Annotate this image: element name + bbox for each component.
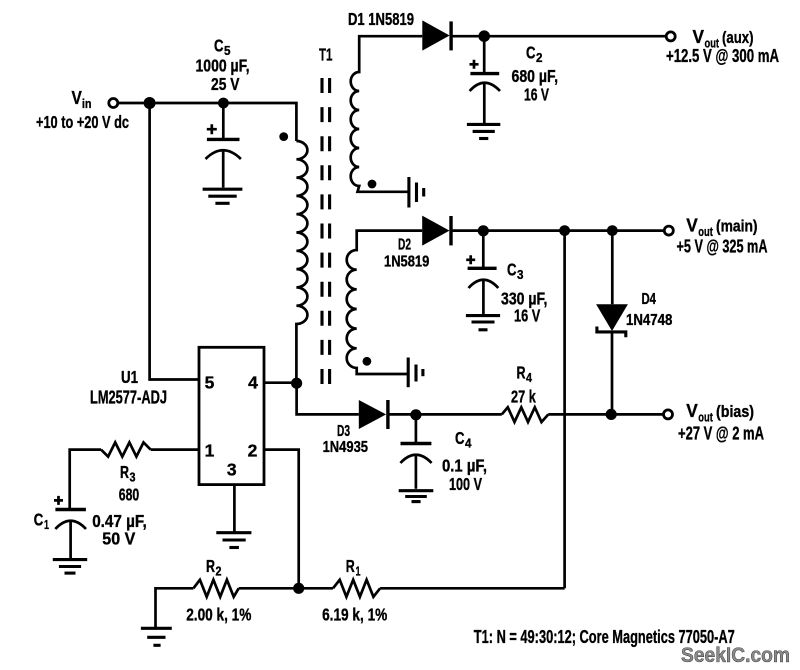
wire Vin node to U1 pin 5 <box>150 103 199 380</box>
svg-text:C: C <box>526 43 536 63</box>
terminal Vin <box>109 99 118 108</box>
svg-text:+12.5 V @ 300 mA: +12.5 V @ 300 mA <box>666 46 779 66</box>
svg-text:U1: U1 <box>121 367 138 387</box>
svg-text:out: out <box>698 409 713 424</box>
diode D2 <box>422 216 449 246</box>
wire feedback vertical <box>563 231 566 589</box>
svg-text:R: R <box>120 462 129 482</box>
node pin4 junction <box>291 378 302 389</box>
transformer T1 secondary 2 <box>347 231 423 374</box>
svg-text:1N4935: 1N4935 <box>323 439 369 456</box>
svg-text:5: 5 <box>205 373 215 393</box>
node C4 junction <box>410 409 421 420</box>
diode D1 <box>422 20 449 50</box>
svg-text:C: C <box>455 428 465 448</box>
svg-text:R: R <box>206 556 215 576</box>
svg-text:(main): (main) <box>716 217 758 236</box>
svg-text:D1 1N5819: D1 1N5819 <box>348 9 414 29</box>
wire main output line <box>451 229 664 232</box>
node D1 C2 junction <box>478 30 490 42</box>
D1 cathode bar <box>449 21 452 50</box>
wire U1 pin3 down <box>233 485 236 532</box>
ground C5 <box>203 189 243 203</box>
svg-text:4: 4 <box>526 370 533 385</box>
svg-text:SeekIC.com: SeekIC.com <box>681 644 790 667</box>
capacitor C2 <box>470 36 501 123</box>
wire R3 to C1 <box>70 450 101 510</box>
D4 zener bar <box>597 327 626 338</box>
svg-text:4: 4 <box>465 436 472 451</box>
svg-text:3: 3 <box>227 460 237 480</box>
capacitor C4 <box>400 415 431 489</box>
svg-text:50 V: 50 V <box>102 529 135 549</box>
capacitor C3 <box>466 231 498 314</box>
wire feedback bottom left <box>156 588 194 627</box>
svg-text:2: 2 <box>216 564 222 579</box>
svg-text:D4: D4 <box>642 291 657 308</box>
svg-text:27 k: 27 k <box>511 387 536 407</box>
ground R2 left <box>141 628 172 645</box>
svg-text:100 V: 100 V <box>449 474 482 494</box>
svg-text:C: C <box>507 260 517 280</box>
svg-text:(aux): (aux) <box>722 28 754 47</box>
capacitor C5 <box>206 103 241 188</box>
svg-text:D2: D2 <box>398 237 411 254</box>
svg-text:4: 4 <box>248 373 258 393</box>
svg-text:1N4748: 1N4748 <box>626 312 673 329</box>
svg-text:C: C <box>34 510 44 530</box>
resistor R2 <box>193 580 238 597</box>
svg-text:+10 to +20 V dc: +10 to +20 V dc <box>36 112 129 132</box>
node bias D4 junction <box>606 409 617 420</box>
resistor R3 <box>101 442 151 456</box>
wire D3 to R4 <box>388 413 502 416</box>
wire R1 to feedback vertical <box>380 587 564 590</box>
wire node to D3 anode <box>297 383 359 414</box>
resistor R4 <box>502 407 549 422</box>
terminal Vout main <box>664 226 673 235</box>
svg-text:LM2577-ADJ: LM2577-ADJ <box>90 388 167 408</box>
svg-text:1: 1 <box>356 564 361 579</box>
transformer T1 primary winding <box>296 141 307 383</box>
svg-text:V: V <box>693 26 705 47</box>
svg-text:3: 3 <box>517 267 524 282</box>
capacitor C1 <box>54 496 86 559</box>
wire U1 pin2 down <box>264 450 299 589</box>
svg-text:16 V: 16 V <box>524 85 549 105</box>
chassis ground secondary 2 <box>408 358 423 388</box>
D2 cathode bar <box>449 216 452 245</box>
polarity dot primary <box>279 132 288 141</box>
svg-text:C: C <box>214 36 224 56</box>
node feedback junction <box>293 583 304 594</box>
svg-text:R: R <box>517 363 526 383</box>
svg-text:T1: T1 <box>319 45 333 65</box>
svg-text:1: 1 <box>44 517 49 532</box>
svg-text:25 V: 25 V <box>211 74 240 94</box>
svg-text:V: V <box>686 215 698 236</box>
ground C2 <box>467 124 500 138</box>
svg-text:2: 2 <box>248 441 258 461</box>
svg-text:(bias): (bias) <box>716 402 754 421</box>
svg-text:V: V <box>686 400 698 421</box>
wire D4 to bias node <box>611 332 614 415</box>
wire U1 pin4 to node <box>264 381 297 384</box>
svg-text:1: 1 <box>205 441 215 461</box>
wire Vin input line <box>118 103 297 141</box>
terminal Vout bias <box>664 410 673 419</box>
ground C1 <box>53 560 87 574</box>
ground C4 <box>399 491 434 502</box>
svg-text:1000 µF,: 1000 µF, <box>196 56 250 76</box>
transformer core <box>322 78 330 384</box>
node D4 top <box>607 225 618 236</box>
svg-text:680 µF,: 680 µF, <box>512 66 559 86</box>
terminal Vout aux <box>666 32 675 41</box>
svg-text:1N5819: 1N5819 <box>384 254 430 271</box>
wire U1 pin1 to R3 <box>151 448 199 451</box>
svg-text:680: 680 <box>119 485 140 505</box>
svg-text:D3: D3 <box>337 423 350 440</box>
svg-text:+5 V @ 325 mA: +5 V @ 325 mA <box>677 237 768 257</box>
diode D3 <box>359 400 386 429</box>
node feedback tap <box>559 225 570 236</box>
wire D4 branch <box>611 231 614 305</box>
svg-text:2.00 k, 1%: 2.00 k, 1% <box>186 605 252 625</box>
ground C3 <box>466 316 500 330</box>
svg-text:R: R <box>346 556 355 576</box>
svg-text:16 V: 16 V <box>514 306 541 326</box>
node Vin junction <box>144 97 156 109</box>
zener diode D4 <box>596 304 628 331</box>
svg-text:+27 V @ 2 mA: +27 V @ 2 mA <box>678 424 764 444</box>
polarity dot secondary 2 <box>363 357 372 366</box>
svg-text:3: 3 <box>130 470 136 485</box>
IC U1 <box>199 347 264 484</box>
node D2 C3 junction <box>478 225 489 236</box>
D3 cathode bar <box>386 400 389 429</box>
wire R2 to R1 <box>239 587 333 590</box>
resistor R1 <box>333 580 380 597</box>
svg-text:2: 2 <box>536 50 543 65</box>
polarity dot secondary 1 <box>368 180 377 189</box>
ground U1 pin3 <box>216 533 251 548</box>
node C5 junction <box>218 98 229 109</box>
wire R4 to bias terminal <box>548 413 663 416</box>
transformer T1 secondary 1 <box>351 36 423 192</box>
chassis ground secondary 1 <box>409 177 424 208</box>
svg-text:0.1 µF,: 0.1 µF, <box>442 456 487 476</box>
wire aux output line <box>451 35 666 38</box>
svg-text:6.19 k, 1%: 6.19 k, 1% <box>322 605 388 625</box>
